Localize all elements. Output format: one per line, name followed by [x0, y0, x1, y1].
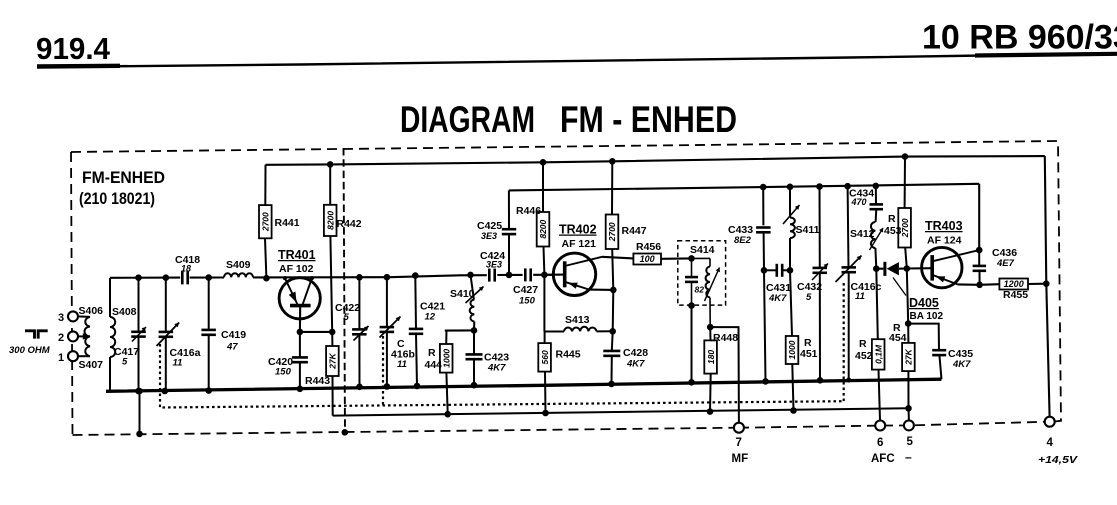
capacitor C428 4K7 — [611, 331, 614, 351]
svg-text:452: 452 — [855, 350, 873, 362]
capacitor 82 in S414 — [688, 255, 695, 262]
svg-text:8200: 8200 — [325, 211, 335, 230]
svg-text:6: 6 — [877, 437, 883, 449]
coil S414 tuned variable — [692, 257, 711, 259]
resistor R447 2700 — [609, 158, 616, 165]
svg-text:R445: R445 — [556, 349, 581, 361]
svg-text:3E3: 3E3 — [486, 260, 502, 270]
svg-text:S413: S413 — [565, 314, 590, 326]
svg-text:S408: S408 — [112, 306, 137, 318]
tuning gang coupling dotted line — [160, 344, 844, 408]
capacitor C427 series 150 — [524, 268, 527, 281]
svg-text:AF 121: AF 121 — [562, 238, 597, 250]
wire negative rail to terminal 5 — [908, 408, 910, 420]
svg-text:TR403: TR403 — [925, 219, 963, 233]
svg-text:100: 100 — [640, 254, 655, 264]
svg-text:AF 102: AF 102 — [279, 263, 314, 275]
svg-text:10 RB 960/33: 10 RB 960/33 — [922, 19, 1117, 57]
svg-text:27K: 27K — [904, 348, 914, 365]
svg-text:C428: C428 — [623, 347, 648, 359]
resistor R441 2700 — [264, 165, 266, 205]
negative rail wire — [333, 408, 909, 415]
svg-text:444: 444 — [425, 359, 443, 371]
svg-text:4K7: 4K7 — [768, 293, 787, 304]
svg-text:R: R — [888, 213, 896, 225]
terminal 1 — [68, 351, 78, 361]
header rule line — [37, 54, 1117, 68]
svg-text:C427: C427 — [513, 284, 538, 296]
svg-text:0,1M: 0,1M — [873, 344, 883, 364]
wire TR401 base node — [300, 331, 332, 333]
wire terminal 2 tap with arrow — [77, 335, 84, 337]
svg-text:2700: 2700 — [607, 222, 617, 242]
resistor R451 1000 — [790, 270, 792, 336]
svg-text:S409: S409 — [226, 259, 251, 271]
svg-text:AF 124: AF 124 — [927, 235, 962, 247]
wire TR403 collector node — [976, 247, 983, 254]
svg-text:11: 11 — [855, 291, 865, 302]
svg-text:5: 5 — [344, 312, 350, 323]
svg-text:R: R — [428, 347, 436, 359]
svg-text:2700: 2700 — [261, 212, 271, 232]
capacitor C416c tuning gang — [844, 183, 851, 190]
svg-text:(210 18021): (210 18021) — [79, 190, 155, 208]
wire oscillator feedback node — [445, 329, 474, 331]
svg-text:150: 150 — [519, 296, 536, 307]
svg-text:D405: D405 — [909, 296, 939, 310]
svg-text:C419: C419 — [221, 329, 246, 341]
IF transformer S414 dashed box — [678, 241, 726, 305]
coil S410 oscillator trimmer — [467, 272, 474, 279]
discriminator feed wire — [509, 184, 979, 191]
svg-text:4: 4 — [1047, 437, 1054, 449]
svg-text:150: 150 — [275, 367, 292, 378]
svg-text:47: 47 — [226, 342, 238, 353]
svg-text:S406: S406 — [79, 305, 104, 317]
svg-text:R: R — [859, 338, 867, 350]
svg-text:180: 180 — [706, 350, 716, 364]
svg-text:919.4: 919.4 — [36, 32, 110, 66]
svg-text:4K7: 4K7 — [626, 359, 645, 370]
svg-text:7: 7 — [736, 437, 742, 449]
capacitor C432 5 trimmer — [816, 183, 823, 190]
svg-text:TR401: TR401 — [278, 248, 316, 262]
svg-text:82: 82 — [695, 285, 705, 295]
capacitor C434 470 — [873, 183, 880, 190]
svg-text:MF: MF — [732, 453, 749, 465]
resistor R448 180 — [704, 340, 717, 373]
capacitor C420 150 — [299, 332, 301, 358]
wire input tank top line — [110, 277, 180, 279]
capacitor C431 series 4K7 — [764, 269, 777, 271]
svg-text:1: 1 — [58, 352, 64, 364]
svg-text:R448: R448 — [713, 332, 738, 344]
terminal 4 +14.5V — [1045, 417, 1055, 427]
svg-text:R441: R441 — [275, 217, 300, 229]
wire S414 cap to ground — [691, 306, 693, 383]
junction partition to border — [342, 429, 349, 436]
varactor diode D405 BA 102 — [876, 268, 883, 270]
svg-text:27K: 27K — [328, 352, 338, 369]
svg-text:5: 5 — [806, 292, 812, 303]
terminal 7 MF — [734, 423, 744, 433]
svg-text:454: 454 — [889, 332, 907, 344]
svg-text:8200: 8200 — [538, 219, 548, 238]
positive supply rail wire — [266, 156, 1045, 165]
resistor R455 1200 — [999, 279, 1028, 290]
resistor R453 2700 — [902, 153, 909, 160]
resistor R442 8200 — [327, 161, 334, 168]
svg-text:R455: R455 — [1003, 289, 1028, 301]
svg-text:R446: R446 — [516, 205, 541, 217]
svg-text:TR402: TR402 — [559, 223, 597, 237]
capacitor C417 trimmer — [135, 274, 142, 281]
svg-text:R443: R443 — [305, 375, 330, 387]
wire TR402 emitter — [589, 289, 613, 291]
capacitor C416a tuning gang — [163, 274, 170, 281]
svg-text:FM-ENHED: FM-ENHED — [82, 169, 165, 187]
wire TR403 emitter — [958, 283, 980, 285]
shield partition dashed line — [344, 148, 346, 432]
svg-text:1200: 1200 — [1004, 279, 1024, 289]
svg-text:S414: S414 — [690, 244, 715, 256]
svg-text:R456: R456 — [636, 241, 661, 253]
svg-text:–: – — [905, 450, 912, 464]
capacitor C423 4K7 — [473, 330, 475, 354]
svg-text:S411: S411 — [796, 224, 820, 236]
svg-text:8E2: 8E2 — [734, 235, 752, 246]
coil S411 variable — [787, 184, 794, 191]
svg-text:5: 5 — [122, 357, 128, 368]
svg-text:300 OHM: 300 OHM — [9, 345, 51, 356]
svg-text:5: 5 — [907, 436, 914, 448]
svg-text:3E3: 3E3 — [481, 231, 497, 241]
svg-text:4K7: 4K7 — [487, 363, 506, 374]
FM-ENHED enclosure dashed border — [71, 141, 1058, 152]
svg-text:AFC: AFC — [871, 453, 895, 465]
resistor R446 8200 — [540, 159, 547, 166]
svg-text:DIAGRAM: DIAGRAM — [400, 99, 535, 140]
svg-text:11: 11 — [397, 359, 407, 370]
terminal 6 AFC — [875, 421, 885, 431]
capacitor C421 12 — [412, 272, 419, 279]
terminal 5 minus — [904, 420, 914, 430]
wire IF output to terminal 7 — [710, 327, 739, 422]
resistor R443 27K — [331, 332, 333, 346]
svg-text:453: 453 — [884, 225, 902, 237]
antenna symbol 300 OHM dipole — [25, 331, 48, 339]
wire R456 to S414 — [661, 257, 692, 259]
svg-text:4E7: 4E7 — [996, 258, 1015, 269]
svg-text:470: 470 — [851, 197, 867, 207]
svg-text:1000: 1000 — [787, 340, 797, 359]
svg-text:1000: 1000 — [441, 349, 451, 368]
wire oscillator line — [190, 276, 224, 278]
resistor R444 1000 — [445, 331, 447, 345]
svg-text:R447: R447 — [622, 225, 647, 237]
svg-text:FM - ENHED: FM - ENHED — [560, 99, 737, 140]
svg-text:11: 11 — [173, 358, 183, 369]
wire supply to terminal 4 — [1045, 156, 1050, 416]
terminal 3 — [68, 311, 78, 321]
resistor R454 27K — [907, 269, 908, 324]
capacitor C422 5 trimmer — [356, 274, 363, 281]
svg-text:12: 12 — [425, 312, 436, 323]
resistor R452 0.1M — [876, 269, 878, 340]
svg-text:S407: S407 — [79, 359, 104, 371]
wire ground bus to shield — [139, 391, 141, 434]
wire R455 to supply — [1028, 283, 1046, 285]
wire TR402 collector — [602, 257, 633, 259]
capacitor C435 4K7 — [908, 324, 939, 351]
capacitor C419 47 — [205, 274, 212, 281]
svg-text:2: 2 — [58, 332, 64, 344]
svg-text:BA 102: BA 102 — [910, 311, 944, 322]
svg-text:4K7: 4K7 — [952, 359, 971, 370]
wire mixer to TR402 base — [497, 274, 522, 276]
svg-text:3: 3 — [58, 312, 64, 324]
svg-text:560: 560 — [540, 350, 550, 364]
resistor R445 560 — [538, 343, 551, 372]
ground bus wire — [106, 379, 942, 391]
capacitor C433 8E2 — [760, 184, 767, 191]
capacitor C436 4E7 — [978, 250, 980, 266]
svg-text:451: 451 — [800, 348, 818, 360]
terminal 2 — [68, 331, 78, 341]
svg-text:+14,5V: +14,5V — [1038, 454, 1078, 466]
wire C433 to ground — [764, 270, 766, 381]
capacitor C416b tuning gang — [384, 274, 391, 281]
svg-text:R442: R442 — [337, 218, 362, 230]
